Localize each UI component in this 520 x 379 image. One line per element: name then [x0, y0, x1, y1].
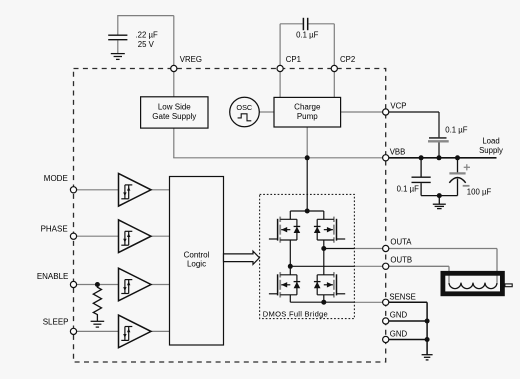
- svg-text:25 V: 25 V: [138, 40, 155, 49]
- svg-text:Logic: Logic: [187, 260, 206, 269]
- svg-text:OSC: OSC: [236, 103, 252, 112]
- svg-text:Load: Load: [482, 136, 499, 145]
- svg-text:PHASE: PHASE: [41, 225, 68, 234]
- svg-text:CP1: CP1: [286, 55, 301, 64]
- svg-text:VREG: VREG: [180, 55, 202, 64]
- svg-text:CP2: CP2: [340, 55, 355, 64]
- svg-text:OUTA: OUTA: [390, 238, 412, 247]
- svg-text:.22 µF: .22 µF: [136, 31, 158, 40]
- svg-text:VCP: VCP: [390, 102, 406, 111]
- svg-text:MODE: MODE: [44, 174, 68, 183]
- svg-text:Supply: Supply: [479, 146, 503, 155]
- svg-text:GND: GND: [390, 329, 408, 338]
- svg-text:Control: Control: [184, 250, 210, 259]
- svg-text:Pump: Pump: [297, 112, 318, 121]
- svg-text:SENSE: SENSE: [389, 293, 415, 302]
- svg-text:Charge: Charge: [294, 102, 321, 111]
- svg-text:ENABLE: ENABLE: [37, 272, 69, 281]
- svg-text:100 µF: 100 µF: [467, 188, 492, 197]
- svg-text:OUTB: OUTB: [390, 256, 412, 265]
- svg-text:Gate Supply: Gate Supply: [152, 112, 196, 121]
- svg-text:DMOS Full Bridge: DMOS Full Bridge: [263, 310, 328, 319]
- svg-text:VBB: VBB: [390, 148, 406, 157]
- svg-text:0.1 µF: 0.1 µF: [296, 30, 318, 39]
- svg-text:0.1 µF: 0.1 µF: [397, 184, 419, 193]
- svg-text:0.1 µF: 0.1 µF: [445, 125, 467, 134]
- svg-text:GND: GND: [390, 311, 408, 320]
- svg-text:SLEEP: SLEEP: [43, 317, 69, 326]
- svg-text:Low Side: Low Side: [158, 102, 191, 111]
